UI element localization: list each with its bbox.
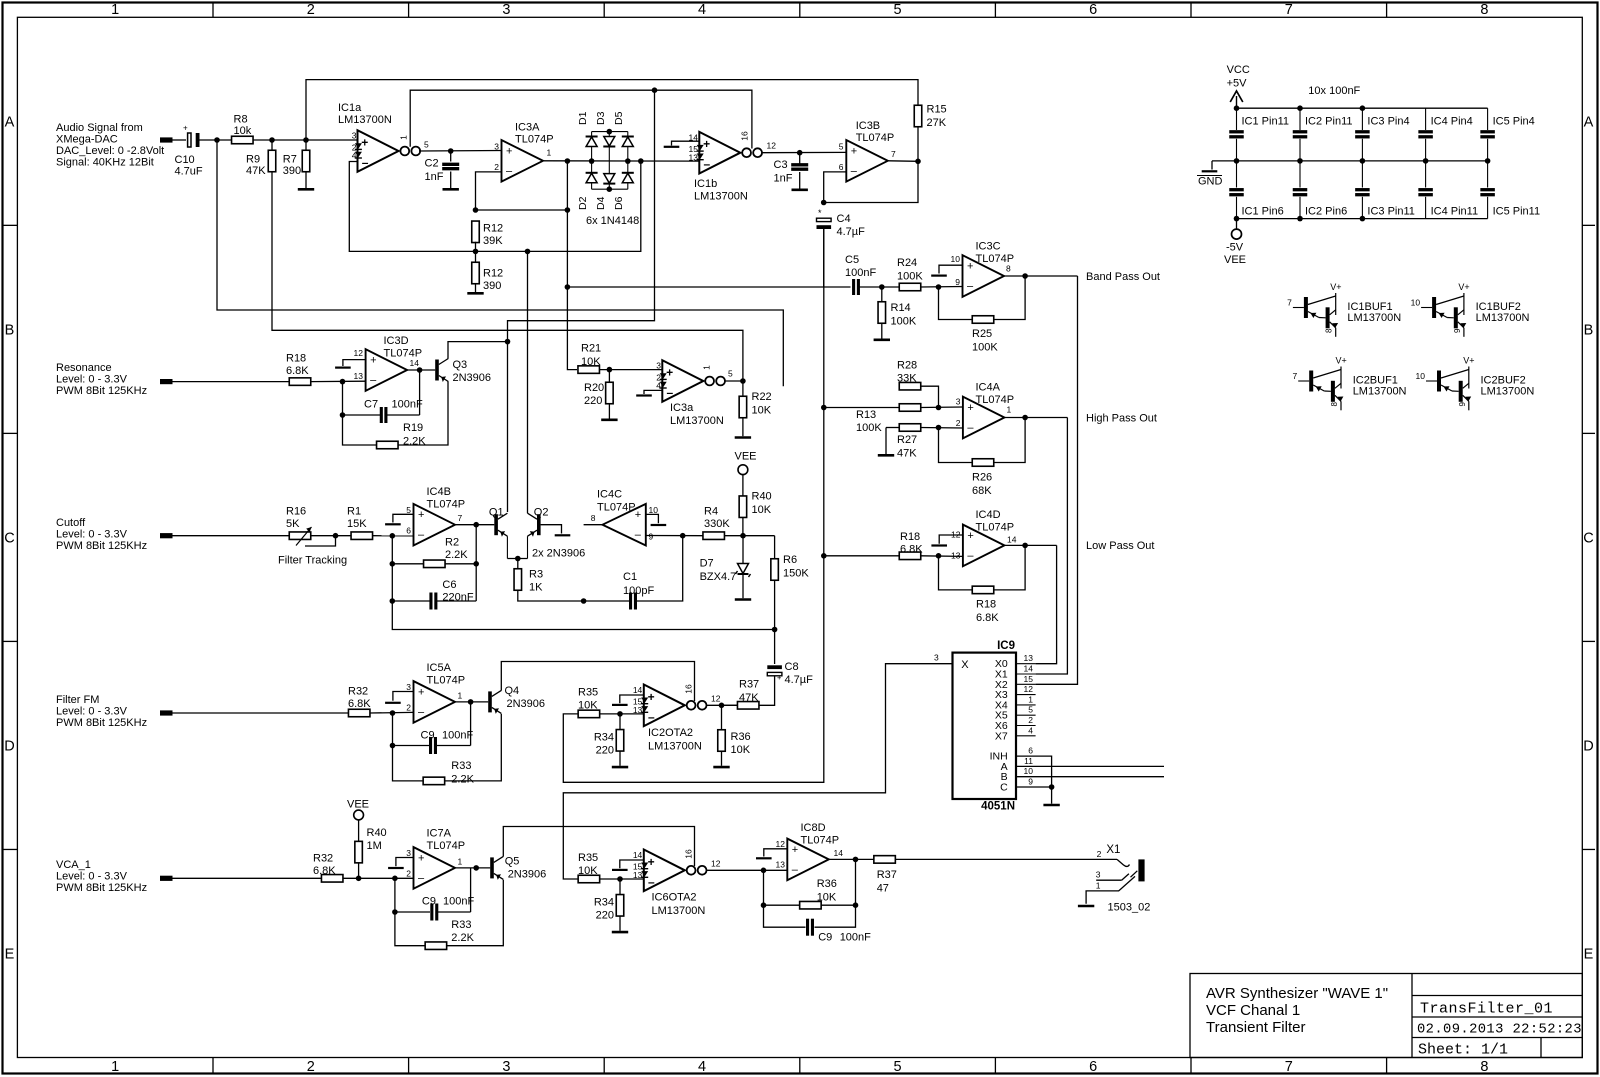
svg-text:+: + xyxy=(418,686,424,698)
svg-text:R1: R1 xyxy=(347,506,361,518)
svg-text:10K: 10K xyxy=(731,744,751,756)
svg-text:R12: R12 xyxy=(483,223,503,235)
svg-text:2: 2 xyxy=(307,1059,315,1075)
svg-text:AVR Synthesizer "WAVE 1": AVR Synthesizer "WAVE 1" xyxy=(1206,985,1388,1002)
svg-text:6: 6 xyxy=(406,526,411,536)
svg-text:1: 1 xyxy=(458,857,463,867)
svg-text:5: 5 xyxy=(728,369,733,379)
svg-text:7: 7 xyxy=(1285,1059,1293,1075)
svg-text:R4: R4 xyxy=(704,506,718,518)
svg-text:LM13700N: LM13700N xyxy=(1481,386,1535,398)
svg-text:100nF: 100nF xyxy=(845,267,876,279)
svg-text:13: 13 xyxy=(689,152,699,162)
svg-text:4: 4 xyxy=(1028,725,1033,735)
svg-text:R21: R21 xyxy=(581,343,601,355)
svg-text:D4: D4 xyxy=(595,196,607,210)
svg-text:R22: R22 xyxy=(752,391,772,403)
svg-text:9: 9 xyxy=(1028,777,1033,787)
svg-text:LM13700N: LM13700N xyxy=(1353,386,1407,398)
svg-text:High Pass Out: High Pass Out xyxy=(1086,413,1157,425)
svg-text:XMega-DAC: XMega-DAC xyxy=(56,134,118,146)
svg-text:2: 2 xyxy=(1028,715,1033,725)
svg-text:10K: 10K xyxy=(752,504,772,516)
svg-text:X1: X1 xyxy=(1106,844,1120,856)
svg-text:2: 2 xyxy=(1097,849,1102,859)
svg-text:5: 5 xyxy=(406,505,411,515)
svg-text:4.7µF: 4.7µF xyxy=(785,674,814,686)
svg-text:Band Pass Out: Band Pass Out xyxy=(1086,271,1160,283)
svg-text:Level: 0 - 3.3V: Level: 0 - 3.3V xyxy=(56,374,128,386)
svg-text:2x 2N3906: 2x 2N3906 xyxy=(532,548,585,560)
svg-text:8: 8 xyxy=(1006,264,1011,274)
svg-text:3: 3 xyxy=(1096,870,1101,880)
svg-text:–: – xyxy=(792,864,799,876)
svg-text:TL074P: TL074P xyxy=(515,134,554,146)
svg-text:1: 1 xyxy=(399,135,409,140)
svg-text:C3: C3 xyxy=(774,159,788,171)
svg-text:LM13700N: LM13700N xyxy=(670,415,724,427)
svg-text:IC4B: IC4B xyxy=(427,486,451,498)
svg-text:IC5 Pin11: IC5 Pin11 xyxy=(1493,206,1541,218)
svg-text:150K: 150K xyxy=(783,568,809,580)
svg-text:IC5 Pin4: IC5 Pin4 xyxy=(1493,116,1535,128)
svg-text:D1: D1 xyxy=(577,111,589,125)
svg-text:R2: R2 xyxy=(445,537,459,549)
svg-text:8: 8 xyxy=(1480,2,1488,18)
svg-text:7: 7 xyxy=(891,149,896,159)
svg-text:4: 4 xyxy=(352,151,357,161)
svg-text:12: 12 xyxy=(1024,684,1034,694)
svg-text:–: – xyxy=(418,872,425,884)
svg-text:–: – xyxy=(851,165,858,177)
svg-text:4051N: 4051N xyxy=(981,801,1015,813)
svg-text:100pF: 100pF xyxy=(623,585,654,597)
svg-text:7: 7 xyxy=(1287,298,1292,308)
svg-text:390: 390 xyxy=(283,165,301,177)
svg-text:R33: R33 xyxy=(451,919,471,931)
svg-text:C1: C1 xyxy=(623,571,637,583)
svg-text:–: – xyxy=(648,710,655,724)
svg-text:390: 390 xyxy=(483,280,501,292)
svg-text:+: + xyxy=(648,690,655,704)
svg-text:A: A xyxy=(5,114,15,130)
svg-text:–: – xyxy=(418,706,425,718)
svg-text:12: 12 xyxy=(776,839,786,849)
svg-text:V+: V+ xyxy=(1330,282,1341,292)
svg-text:10x 100nF: 10x 100nF xyxy=(1308,85,1360,97)
svg-text:+: + xyxy=(361,136,368,150)
svg-text:IC1a: IC1a xyxy=(338,102,362,114)
svg-text:1: 1 xyxy=(111,1059,119,1075)
svg-text:DAC_Level: 0 -2.8Volt: DAC_Level: 0 -2.8Volt xyxy=(56,145,164,157)
svg-text:8: 8 xyxy=(1325,328,1334,333)
svg-text:9: 9 xyxy=(649,532,654,542)
svg-text:*: * xyxy=(818,208,822,218)
svg-text:100nF: 100nF xyxy=(443,896,474,908)
svg-text:–: – xyxy=(967,550,974,562)
svg-text:R9: R9 xyxy=(246,154,260,166)
svg-text:9: 9 xyxy=(955,277,960,287)
svg-text:D3: D3 xyxy=(595,111,607,125)
svg-text:IC3C: IC3C xyxy=(976,241,1001,253)
svg-text:D7: D7 xyxy=(700,558,714,570)
svg-text:6: 6 xyxy=(1028,746,1033,756)
svg-text:D6: D6 xyxy=(613,196,625,210)
svg-text:11: 11 xyxy=(1024,756,1033,766)
svg-text:–: – xyxy=(370,375,377,387)
svg-text:R26: R26 xyxy=(972,472,992,484)
svg-text:R25: R25 xyxy=(972,328,992,340)
svg-text:C6: C6 xyxy=(442,579,456,591)
svg-text:IC2 Pin6: IC2 Pin6 xyxy=(1305,206,1347,218)
svg-text:16: 16 xyxy=(684,849,694,859)
svg-text:R37: R37 xyxy=(739,679,759,691)
svg-text:10: 10 xyxy=(1024,766,1034,776)
svg-text:+5V: +5V xyxy=(1227,78,1248,90)
svg-text:15: 15 xyxy=(1024,674,1034,684)
svg-text:V+: V+ xyxy=(1336,356,1347,366)
svg-text:1M: 1M xyxy=(367,840,382,852)
svg-text:6.8K: 6.8K xyxy=(348,698,371,710)
svg-text:–: – xyxy=(967,422,974,434)
svg-text:220: 220 xyxy=(596,910,614,922)
svg-text:1503_02: 1503_02 xyxy=(1108,902,1151,914)
svg-text:–: – xyxy=(648,875,655,889)
svg-text:BZX4.7: BZX4.7 xyxy=(700,571,737,583)
svg-text:V+: V+ xyxy=(1458,282,1469,292)
svg-text:R36: R36 xyxy=(817,878,837,890)
svg-text:220: 220 xyxy=(596,745,614,757)
svg-text:1: 1 xyxy=(702,365,712,370)
svg-text:220nF: 220nF xyxy=(442,592,473,604)
svg-text:Cutoff: Cutoff xyxy=(56,517,86,529)
svg-text:14: 14 xyxy=(1024,664,1034,674)
svg-text:2: 2 xyxy=(956,418,961,428)
svg-text:12: 12 xyxy=(354,348,364,358)
svg-text:R16: R16 xyxy=(286,506,306,518)
svg-text:IC4 Pin4: IC4 Pin4 xyxy=(1431,116,1473,128)
svg-text:6: 6 xyxy=(1089,2,1097,18)
svg-text:Q3: Q3 xyxy=(453,359,468,371)
svg-text:C7: C7 xyxy=(364,399,378,411)
svg-text:TL074P: TL074P xyxy=(427,499,466,511)
svg-text:12: 12 xyxy=(711,694,721,704)
svg-text:R3: R3 xyxy=(529,569,543,581)
svg-text:4.7µF: 4.7µF xyxy=(837,226,866,238)
svg-text:–: – xyxy=(362,156,369,170)
svg-text:R35: R35 xyxy=(578,852,598,864)
svg-text:R34: R34 xyxy=(594,732,614,744)
svg-text:R34: R34 xyxy=(594,897,614,909)
svg-text:9: 9 xyxy=(1458,402,1467,407)
svg-text:+: + xyxy=(183,124,188,133)
svg-text:C: C xyxy=(1000,782,1008,794)
svg-text:E: E xyxy=(1584,946,1594,962)
svg-text:02.09.2013 22:52:23: 02.09.2013 22:52:23 xyxy=(1417,1023,1582,1038)
svg-text:7: 7 xyxy=(1285,2,1293,18)
svg-text:2: 2 xyxy=(406,703,411,713)
svg-text:C9: C9 xyxy=(818,932,832,944)
svg-text:15K: 15K xyxy=(347,518,367,530)
svg-text:+: + xyxy=(635,509,641,521)
svg-text:VEE: VEE xyxy=(1224,254,1246,266)
svg-text:IC1BUF1: IC1BUF1 xyxy=(1347,301,1392,313)
svg-text:IC6OTA2: IC6OTA2 xyxy=(652,892,697,904)
svg-text:9: 9 xyxy=(1453,328,1462,333)
svg-text:IC3B: IC3B xyxy=(856,120,880,132)
svg-text:A: A xyxy=(1584,114,1594,130)
svg-text:3: 3 xyxy=(406,848,411,858)
svg-text:R19: R19 xyxy=(403,422,423,434)
svg-text:Q2: Q2 xyxy=(534,507,549,519)
svg-text:R32: R32 xyxy=(348,686,368,698)
svg-text:IC1BUF2: IC1BUF2 xyxy=(1476,301,1521,313)
svg-text:14: 14 xyxy=(834,848,844,858)
svg-text:C4: C4 xyxy=(837,213,851,225)
svg-text:C5: C5 xyxy=(845,254,859,266)
svg-text:Q4: Q4 xyxy=(505,685,520,697)
svg-text:+: + xyxy=(851,145,857,157)
svg-text:47: 47 xyxy=(877,883,889,895)
svg-text:E: E xyxy=(5,946,15,962)
svg-text:2N3906: 2N3906 xyxy=(507,698,546,710)
svg-text:TL074P: TL074P xyxy=(856,132,895,144)
svg-text:R18: R18 xyxy=(900,531,920,543)
svg-text:+: + xyxy=(666,366,673,380)
svg-text:D5: D5 xyxy=(613,111,625,125)
svg-text:–: – xyxy=(506,165,513,177)
svg-text:TL074P: TL074P xyxy=(427,675,466,687)
svg-text:13: 13 xyxy=(633,870,643,880)
svg-text:100nF: 100nF xyxy=(442,730,473,742)
svg-text:47K: 47K xyxy=(246,165,266,177)
svg-text:8: 8 xyxy=(591,513,596,523)
svg-text:LM13700N: LM13700N xyxy=(1347,312,1401,324)
svg-text:3: 3 xyxy=(656,361,661,371)
svg-text:+: + xyxy=(967,530,973,542)
svg-text:5: 5 xyxy=(894,1059,902,1075)
svg-text:1nF: 1nF xyxy=(774,173,793,185)
svg-text:D: D xyxy=(4,738,14,754)
svg-text:C: C xyxy=(4,530,14,546)
svg-text:2.2K: 2.2K xyxy=(445,549,468,561)
svg-text:–: – xyxy=(967,281,974,293)
svg-text:D: D xyxy=(1583,738,1593,754)
svg-text:–: – xyxy=(704,157,711,171)
svg-text:Q1: Q1 xyxy=(489,507,504,519)
svg-text:+: + xyxy=(506,145,512,157)
svg-text:10K: 10K xyxy=(817,892,837,904)
svg-text:3: 3 xyxy=(406,682,411,692)
svg-text:10: 10 xyxy=(1416,371,1426,381)
svg-text:R20: R20 xyxy=(584,382,604,394)
svg-text:13: 13 xyxy=(1024,653,1034,663)
svg-text:Resonance: Resonance xyxy=(56,362,112,374)
svg-text:2.2K: 2.2K xyxy=(403,436,426,448)
svg-text:4: 4 xyxy=(698,1059,706,1075)
svg-text:8: 8 xyxy=(1330,402,1339,407)
svg-text:PWM 8Bit 125KHz: PWM 8Bit 125KHz xyxy=(56,540,147,552)
svg-text:V+: V+ xyxy=(1463,356,1474,366)
svg-text:Q5: Q5 xyxy=(505,856,520,868)
svg-text:+: + xyxy=(370,355,376,367)
svg-text:Low Pass Out: Low Pass Out xyxy=(1086,540,1154,552)
svg-text:IC2BUF1: IC2BUF1 xyxy=(1353,375,1398,387)
svg-text:B: B xyxy=(1584,322,1594,338)
svg-text:6: 6 xyxy=(839,162,844,172)
svg-text:R36: R36 xyxy=(731,731,751,743)
svg-text:2: 2 xyxy=(406,869,411,879)
svg-text:LM13700N: LM13700N xyxy=(1476,312,1530,324)
svg-text:C9: C9 xyxy=(421,730,435,742)
svg-text:1: 1 xyxy=(547,148,552,158)
svg-text:6: 6 xyxy=(1089,1059,1097,1075)
svg-text:10: 10 xyxy=(1411,298,1421,308)
svg-text:6.8K: 6.8K xyxy=(286,365,309,377)
svg-text:Transient Filter: Transient Filter xyxy=(1206,1019,1305,1036)
svg-text:+: + xyxy=(792,844,798,856)
svg-text:14: 14 xyxy=(633,685,643,695)
svg-text:3: 3 xyxy=(352,131,357,141)
svg-text:10k: 10k xyxy=(234,125,252,137)
svg-text:3: 3 xyxy=(934,653,939,663)
svg-text:+: + xyxy=(967,402,973,414)
svg-text:R18: R18 xyxy=(976,599,996,611)
svg-text:TL074P: TL074P xyxy=(976,522,1015,534)
svg-text:D2: D2 xyxy=(577,196,589,210)
svg-text:R15: R15 xyxy=(927,104,947,116)
svg-text:IC7A: IC7A xyxy=(427,828,452,840)
svg-text:6.8K: 6.8K xyxy=(976,612,999,624)
svg-text:IC4A: IC4A xyxy=(976,382,1001,394)
svg-text:VCF Chanal 1: VCF Chanal 1 xyxy=(1206,1002,1300,1019)
svg-text:12: 12 xyxy=(711,859,721,869)
svg-text:3: 3 xyxy=(494,142,499,152)
svg-text:4.7uF: 4.7uF xyxy=(175,166,203,178)
svg-text:4: 4 xyxy=(698,2,706,18)
svg-text:2: 2 xyxy=(494,162,499,172)
svg-text:R13: R13 xyxy=(856,409,876,421)
svg-text:2.2K: 2.2K xyxy=(451,774,474,786)
svg-text:–: – xyxy=(635,529,642,541)
svg-text:PWM 8Bit 125KHz: PWM 8Bit 125KHz xyxy=(56,385,147,397)
svg-text:VEE: VEE xyxy=(735,451,757,463)
svg-text:Filter FM: Filter FM xyxy=(56,694,99,706)
svg-text:3: 3 xyxy=(502,2,510,18)
svg-text:TL074P: TL074P xyxy=(427,840,466,852)
svg-text:VCC: VCC xyxy=(1227,64,1250,76)
svg-text:13: 13 xyxy=(951,551,961,561)
svg-text:14: 14 xyxy=(1007,535,1017,545)
svg-text:Level: 0 - 3.3V: Level: 0 - 3.3V xyxy=(56,706,128,718)
svg-text:IC2OTA2: IC2OTA2 xyxy=(648,727,693,739)
svg-text:R27: R27 xyxy=(897,434,917,446)
svg-text:R8: R8 xyxy=(234,114,248,126)
svg-text:R18: R18 xyxy=(286,353,306,365)
svg-text:R35: R35 xyxy=(578,687,598,699)
svg-text:R40: R40 xyxy=(367,827,387,839)
svg-text:R40: R40 xyxy=(752,491,772,503)
svg-text:R6: R6 xyxy=(783,554,797,566)
svg-text:+: + xyxy=(777,673,782,682)
svg-text:10: 10 xyxy=(649,505,659,515)
svg-text:Filter Tracking: Filter Tracking xyxy=(278,555,347,567)
svg-text:C8: C8 xyxy=(785,661,799,673)
svg-text:R33: R33 xyxy=(451,760,471,772)
svg-text:39K: 39K xyxy=(483,235,503,247)
svg-text:16: 16 xyxy=(740,131,750,141)
svg-text:R14: R14 xyxy=(891,302,911,314)
svg-text:R37: R37 xyxy=(877,869,897,881)
svg-text:R7: R7 xyxy=(283,154,297,166)
svg-text:R28: R28 xyxy=(897,360,917,372)
svg-text:IC3 Pin11: IC3 Pin11 xyxy=(1367,206,1415,218)
svg-text:100K: 100K xyxy=(972,342,998,354)
svg-text:+: + xyxy=(418,509,424,521)
svg-text:1: 1 xyxy=(1028,694,1033,704)
svg-text:5K: 5K xyxy=(286,518,300,530)
svg-text:47K: 47K xyxy=(897,448,917,460)
svg-text:5: 5 xyxy=(424,140,429,150)
svg-text:14: 14 xyxy=(633,850,643,860)
svg-text:8: 8 xyxy=(1480,1059,1488,1075)
svg-text:+: + xyxy=(967,261,973,273)
svg-text:IC4 Pin11: IC4 Pin11 xyxy=(1431,206,1479,218)
svg-text:IC9: IC9 xyxy=(997,640,1015,652)
svg-text:14: 14 xyxy=(410,358,420,368)
svg-text:PWM 8Bit 125KHz: PWM 8Bit 125KHz xyxy=(56,882,147,894)
svg-text:IC3a: IC3a xyxy=(670,402,694,414)
svg-text:7: 7 xyxy=(458,513,463,523)
svg-text:C: C xyxy=(1583,530,1593,546)
svg-text:PWM 8Bit 125KHz: PWM 8Bit 125KHz xyxy=(56,717,147,729)
svg-text:GND: GND xyxy=(1198,176,1223,188)
svg-text:IC4D: IC4D xyxy=(976,509,1001,521)
svg-text:B: B xyxy=(5,322,15,338)
svg-text:100K: 100K xyxy=(891,316,917,328)
svg-text:VCA_1: VCA_1 xyxy=(56,859,91,871)
svg-text:IC2 Pin11: IC2 Pin11 xyxy=(1305,116,1353,128)
svg-text:X: X xyxy=(961,659,969,671)
svg-text:+: + xyxy=(703,137,710,151)
svg-text:C2: C2 xyxy=(425,158,439,170)
svg-text:100nF: 100nF xyxy=(392,399,423,411)
svg-text:-5V: -5V xyxy=(1226,242,1244,254)
svg-text:IC1b: IC1b xyxy=(694,178,717,190)
svg-text:1: 1 xyxy=(1096,881,1101,891)
svg-text:IC1 Pin6: IC1 Pin6 xyxy=(1242,206,1284,218)
svg-text:+: + xyxy=(648,855,655,869)
svg-text:13: 13 xyxy=(354,371,364,381)
svg-text:10K: 10K xyxy=(752,405,772,417)
svg-text:1: 1 xyxy=(1007,405,1012,415)
svg-text:16: 16 xyxy=(684,684,694,694)
svg-text:1K: 1K xyxy=(529,582,543,594)
svg-text:Sheet: 1/1: Sheet: 1/1 xyxy=(1418,1042,1508,1059)
svg-text:IC8D: IC8D xyxy=(801,822,826,834)
svg-text:100K: 100K xyxy=(897,271,923,283)
svg-text:R32: R32 xyxy=(313,853,333,865)
svg-text:5: 5 xyxy=(1028,705,1033,715)
svg-text:IC3D: IC3D xyxy=(384,335,409,347)
svg-text:2N3906: 2N3906 xyxy=(508,869,547,881)
svg-text:LM13700N: LM13700N xyxy=(652,905,706,917)
svg-text:R24: R24 xyxy=(897,257,917,269)
svg-text:C10: C10 xyxy=(175,154,195,166)
svg-text:10: 10 xyxy=(951,254,961,264)
svg-text:27K: 27K xyxy=(927,117,947,129)
svg-text:–: – xyxy=(667,386,674,400)
